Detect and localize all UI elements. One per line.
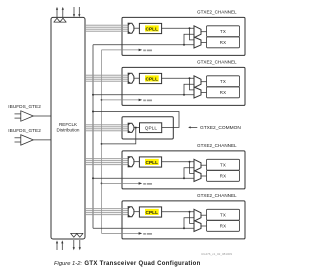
svg-text:RX: RX [220, 40, 227, 45]
QPLL clock wire into CH2 [93, 94, 194, 96]
CPLL 2 (yellow) [139, 73, 161, 83]
south refclk output buffer 2 [77, 233, 83, 237]
QPLL reference clock mux [128, 123, 134, 132]
CH2 TX block [207, 76, 240, 87]
svg-text:GTXE2_CHANNEL: GTXE2_CHANNEL [197, 10, 237, 15]
gray south clock wire with arrow in CH1 [102, 49, 139, 51]
gray bus junction dot ch3 [101, 183, 103, 185]
QPLL clock vertical bus [92, 45, 94, 229]
gray bus junction dot common [101, 143, 103, 145]
wire TX mux to TX [201, 31, 207, 33]
wire CPLL to TX clock mux [162, 211, 194, 213]
south clock incoming arrow 1 (top) [73, 7, 75, 15]
junction dot QPLL clock [183, 44, 185, 46]
gray south clock vertical bus [101, 50, 103, 234]
IBUFDS2 input stub N [15, 141, 21, 143]
IBUFDS1 input stub P [15, 113, 21, 115]
IBUFDS1 output wire [33, 115, 51, 117]
wire RX mux to RX [201, 92, 207, 94]
svg-text:TX: TX [220, 79, 226, 84]
junction dot below QPLL mux [135, 127, 137, 129]
IBUFDS2 output wire [33, 139, 51, 141]
wire mux to QPLL [134, 127, 140, 129]
CH2 reference clock mux [128, 73, 134, 83]
IBUFDS_GTE2 buffer 2 [21, 135, 34, 145]
svg-text:GTXE2_CHANNEL: GTXE2_CHANNEL [197, 143, 237, 148]
CH1 RX clock mux [194, 37, 201, 48]
bus junction dot ch3 [92, 177, 94, 179]
CH2 TX clock mux [194, 76, 201, 88]
gray south clock wire with arrow in CH4 [102, 232, 139, 234]
svg-text:RX: RX [220, 174, 227, 179]
wire down from mux output to south gray bus [102, 128, 136, 144]
GTXE2_CHANNEL 2 box [122, 67, 245, 105]
wire CPLL clock down to RX mux [190, 28, 195, 40]
wire CPLL clock down to RX mux [190, 162, 195, 174]
svg-text:RX: RX [220, 224, 227, 229]
svg-text:CPLL: CPLL [145, 210, 158, 215]
south clock incoming arrow 2 (top) [78, 7, 80, 15]
svg-text:GTXE2_COMMON: GTXE2_COMMON [200, 125, 241, 131]
north-bound up arrow 1 [56, 9, 58, 17]
south-bound down arrow 1 [73, 240, 75, 248]
south-bound down arrow 2 [79, 240, 81, 248]
wire mux to CPLL [134, 211, 139, 213]
svg-text:REFCLK: REFCLK [59, 122, 78, 127]
svg-text:TX: TX [220, 29, 226, 34]
svg-text:QPLL: QPLL [145, 125, 158, 130]
CPLL 4 (yellow) [139, 207, 161, 217]
refclk bundle wires into CH1 CPLL mux [85, 24, 128, 26]
junction dot CPLL clock [189, 27, 191, 29]
CPLL 1 (yellow) [139, 23, 161, 33]
QPLL clock wire into CH1 [93, 44, 194, 46]
junction dot CPLL clock [189, 77, 191, 79]
refclk bundle wires into CH4 CPLL mux [85, 208, 128, 210]
refclk bundle wires into CH3 CPLL mux [85, 158, 128, 160]
wire CPLL to TX clock mux [162, 27, 194, 29]
CH4 RX block [207, 221, 240, 232]
IBUFDS_GTE2 buffer 1 [21, 111, 34, 121]
CH4 TX clock mux [194, 209, 201, 221]
south refclk output buffer 1 [71, 233, 77, 237]
wire QPLL clock up to TX mux [184, 34, 194, 45]
junction dot QPLL clock [183, 94, 185, 96]
north-bound up arrow 2 [62, 9, 64, 17]
wire mux to CPLL [134, 27, 139, 29]
CH4 RX clock mux [194, 221, 201, 232]
north refclk output buffer 1 [54, 18, 60, 22]
CH4 TX block [207, 209, 240, 220]
GTXE2_CHANNEL 4 box [122, 201, 245, 239]
wire RX mux to RX [201, 175, 207, 177]
wire QPLL clock up to TX mux [184, 168, 194, 179]
CH1 reference clock mux [128, 23, 134, 33]
refclk bundle wires into CH2 CPLL mux [85, 74, 128, 76]
wire QPLL clock up to TX mux [184, 84, 194, 95]
north clock incoming arrow 1 (bottom) [56, 243, 58, 250]
svg-text:TX: TX [220, 212, 226, 217]
wire CPLL clock down to RX mux [190, 78, 195, 90]
wire TX mux to TX [201, 164, 207, 166]
wire QPLL clock up to TX mux [184, 218, 194, 229]
svg-text:CPLL: CPLL [145, 26, 158, 31]
GTXE2_CHANNEL 1 box [122, 17, 245, 55]
svg-text:GTXE2_CHANNEL: GTXE2_CHANNEL [197, 60, 237, 65]
IBUFDS2 input stub P [15, 137, 21, 139]
CH3 TX block [207, 159, 240, 170]
bus junction dot ch2 [92, 94, 94, 96]
svg-text:RX: RX [220, 90, 227, 95]
CH1 RX block [207, 37, 240, 48]
CH3 RX block [207, 171, 240, 182]
QPLL clock wire into CH3 [93, 177, 194, 179]
QPLL block [140, 123, 162, 133]
svg-text:GTX Transceiver Quad Configura: GTX Transceiver Quad Configuration [84, 261, 200, 267]
CH3 RX clock mux [194, 171, 201, 182]
refclk bundle wires into QPLL mux [85, 124, 128, 126]
svg-text:IBUFDS_GTE2: IBUFDS_GTE2 [8, 128, 41, 133]
svg-text:IBUFDS_GTE2: IBUFDS_GTE2 [8, 104, 41, 109]
CH3 TX clock mux [194, 159, 201, 171]
GTXE2_CHANNEL 3 box [122, 151, 245, 189]
CH1 TX clock mux [194, 26, 201, 38]
wire TX mux to TX [201, 214, 207, 216]
svg-text:GTXE2_CHANNEL: GTXE2_CHANNEL [197, 193, 237, 198]
wire mux to CPLL [134, 161, 139, 163]
wire RX mux to RX [201, 225, 207, 227]
REFCLK Distribution box [51, 17, 85, 239]
svg-text:UG476_c1_02_081009: UG476_c1_02_081009 [201, 252, 232, 256]
bus junction dot qpll feed [92, 111, 94, 113]
CH2 RX clock mux [194, 87, 201, 98]
wire CPLL clock down to RX mux [190, 212, 195, 224]
north refclk output buffer 2 [60, 18, 66, 22]
CH1 TX block [207, 26, 240, 37]
GTXE2_COMMON pointer arrow [190, 126, 197, 128]
wire RX mux to RX [201, 42, 207, 44]
gray south clock wire with arrow in CH2 [102, 99, 139, 101]
CH3 reference clock mux [128, 157, 134, 167]
GTXE2_COMMON box [122, 117, 173, 139]
svg-text:CPLL: CPLL [145, 76, 158, 81]
CH2 RX block [207, 87, 240, 98]
junction dot QPLL clock [183, 177, 185, 179]
QPLL clock wire into CH4 [93, 227, 194, 229]
junction dot CPLL clock [189, 211, 191, 213]
junction dot CPLL clock [189, 161, 191, 163]
junction dot QPLL clock [183, 227, 185, 229]
IBUFDS1 input stub N [15, 117, 21, 119]
svg-text:CPLL: CPLL [145, 160, 158, 165]
wire CPLL to TX clock mux [162, 161, 194, 163]
svg-text:Distribution: Distribution [57, 128, 80, 133]
wire TX mux to TX [201, 81, 207, 83]
CPLL 3 (yellow) [139, 157, 161, 167]
gray south clock wire with arrow in CH3 [102, 182, 139, 184]
wire CPLL to TX clock mux [162, 77, 194, 79]
svg-text:TX: TX [220, 162, 226, 167]
gray bus junction dot ch2 [101, 99, 103, 101]
north clock incoming arrow 2 (bottom) [61, 243, 63, 250]
svg-text:Figure 1-2:: Figure 1-2: [54, 261, 82, 267]
wire mux to CPLL [134, 77, 139, 79]
QPLL output wire to bus [93, 112, 179, 128]
CH4 reference clock mux [128, 207, 134, 217]
